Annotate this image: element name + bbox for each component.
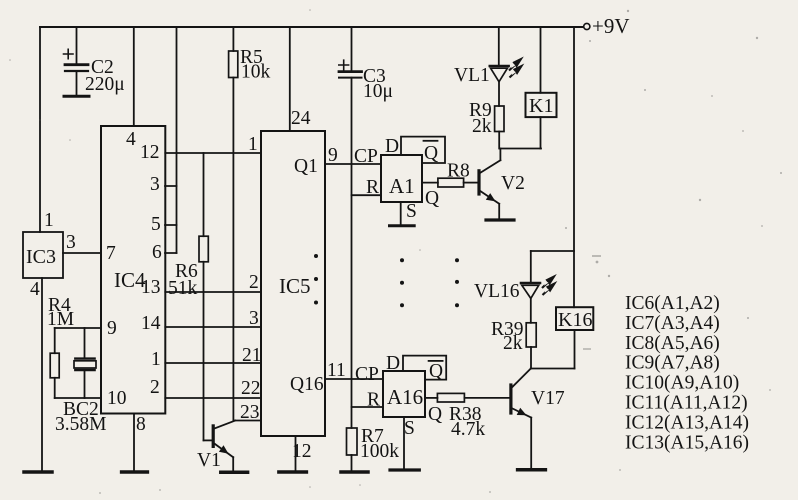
- svg-text:R: R: [366, 177, 379, 198]
- svg-text:S: S: [406, 201, 417, 222]
- svg-text:9: 9: [107, 318, 117, 339]
- svg-text:R8: R8: [447, 161, 470, 182]
- svg-text:24: 24: [291, 108, 311, 129]
- svg-text:11: 11: [327, 360, 346, 381]
- svg-text:Q1: Q1: [294, 156, 318, 177]
- svg-text:Q: Q: [425, 188, 439, 209]
- svg-text:9: 9: [328, 145, 338, 166]
- svg-text:1: 1: [151, 349, 161, 370]
- svg-text:Q: Q: [428, 404, 442, 425]
- svg-text:S: S: [404, 418, 415, 439]
- svg-text:51k: 51k: [168, 278, 198, 299]
- svg-text:3: 3: [150, 174, 160, 195]
- svg-text:D: D: [385, 136, 399, 157]
- svg-text:IC8(A5,A6): IC8(A5,A6): [625, 333, 720, 354]
- svg-text:V2: V2: [501, 173, 525, 194]
- svg-text:8: 8: [136, 414, 146, 435]
- svg-text:IC7(A3,A4): IC7(A3,A4): [625, 313, 720, 334]
- svg-text:2: 2: [249, 272, 259, 293]
- svg-text:22: 22: [241, 378, 261, 399]
- svg-text:VL1: VL1: [454, 65, 490, 86]
- svg-text:23: 23: [240, 402, 260, 423]
- svg-text:10μ: 10μ: [363, 81, 393, 102]
- svg-text:2k: 2k: [503, 333, 523, 354]
- svg-text:V1: V1: [197, 450, 221, 471]
- svg-text:IC13(A15,A16): IC13(A15,A16): [625, 432, 749, 453]
- svg-text:IC10(A9,A10): IC10(A9,A10): [625, 373, 739, 394]
- svg-text:4.7k: 4.7k: [451, 419, 485, 440]
- svg-text:VL16: VL16: [474, 281, 520, 302]
- svg-text:7: 7: [106, 243, 116, 264]
- svg-text:IC3: IC3: [26, 246, 56, 268]
- svg-text:2: 2: [150, 377, 160, 398]
- svg-text:D: D: [386, 353, 400, 374]
- svg-text:12: 12: [292, 441, 312, 462]
- svg-text:1: 1: [44, 210, 54, 231]
- svg-text:100k: 100k: [360, 441, 399, 462]
- svg-text:6: 6: [152, 242, 162, 263]
- svg-text:R: R: [367, 390, 380, 411]
- svg-text:Q16: Q16: [290, 374, 324, 395]
- svg-text:3: 3: [66, 232, 76, 253]
- svg-text:CP: CP: [354, 146, 378, 167]
- svg-text:1: 1: [248, 134, 258, 155]
- svg-text:+9V: +9V: [592, 14, 630, 38]
- svg-text:K16: K16: [558, 309, 592, 331]
- svg-text:IC6(A1,A2): IC6(A1,A2): [625, 293, 720, 314]
- svg-text:13: 13: [141, 277, 161, 298]
- svg-text:220μ: 220μ: [85, 74, 125, 95]
- svg-text:IC5: IC5: [279, 274, 311, 298]
- svg-text:4: 4: [126, 129, 136, 150]
- svg-text:Q: Q: [429, 361, 443, 382]
- svg-text:21: 21: [242, 345, 262, 366]
- svg-text:14: 14: [141, 313, 161, 334]
- svg-text:IC9(A7,A8): IC9(A7,A8): [625, 353, 720, 374]
- svg-text:3.58M: 3.58M: [55, 414, 106, 435]
- svg-text:V17: V17: [531, 388, 565, 409]
- svg-text:5: 5: [151, 214, 161, 235]
- svg-text:2k: 2k: [472, 116, 492, 137]
- svg-text:1M: 1M: [47, 309, 74, 330]
- svg-text:Q: Q: [424, 143, 438, 164]
- svg-text:K1: K1: [529, 95, 553, 117]
- svg-text:IC11(A11,A12): IC11(A11,A12): [625, 393, 748, 414]
- svg-text:12: 12: [140, 142, 160, 163]
- svg-text:IC12(A13,A14): IC12(A13,A14): [625, 412, 749, 433]
- svg-text:10: 10: [107, 388, 127, 409]
- svg-text:10k: 10k: [241, 62, 271, 83]
- svg-text:CP: CP: [355, 364, 379, 385]
- svg-text:3: 3: [249, 308, 259, 329]
- svg-text:A16: A16: [387, 385, 423, 409]
- svg-text:4: 4: [30, 279, 40, 300]
- svg-text:A1: A1: [389, 174, 415, 198]
